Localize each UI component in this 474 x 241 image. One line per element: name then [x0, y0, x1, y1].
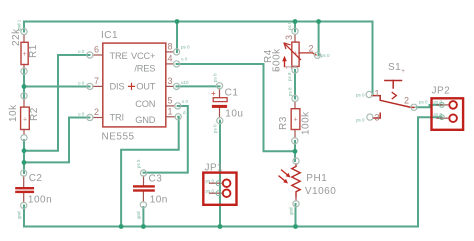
junction node B upper	[22, 148, 27, 153]
svg-text:ps 0: ps 0	[434, 100, 443, 105]
svg-text:u10: u10	[181, 80, 189, 85]
IC1 pin 8 VCC+	[166, 42, 190, 56]
svg-text:ps 0: ps 0	[356, 93, 365, 98]
svg-text:+: +	[293, 117, 297, 124]
wire S1 pin 2 to JP2 pin 1	[417, 105, 442, 107]
IC1 pin 4 /RES	[166, 54, 188, 68]
wire C2 bottom to GND rail	[23, 206, 25, 227]
svg-text:3: 3	[375, 113, 380, 123]
svg-text:100k: 100k	[301, 111, 312, 135]
wire node B: R2 bottom to C2 top	[23, 140, 25, 173]
svg-text:gnd: gnd	[17, 211, 22, 219]
wire VCC rail to IC pin 8	[176, 22, 178, 53]
junction GND rail / PH1	[293, 224, 298, 229]
wire rail drop to R1 top	[23, 22, 25, 32]
svg-text:10u: 10u	[225, 109, 243, 120]
IC1 pin 3 OUT	[166, 76, 189, 90]
junction VCC rail / pin 8	[175, 19, 180, 24]
wire bottom GND rail	[24, 226, 418, 228]
svg-text:/RES: /RES	[134, 63, 155, 73]
svg-text:JP1: JP1	[205, 163, 224, 174]
capacitor C2	[15, 170, 52, 219]
resistor R2	[8, 93, 40, 141]
svg-text:ps 0: ps 0	[206, 179, 215, 184]
svg-text:ps 0: ps 0	[321, 53, 330, 58]
svg-text:ps 0: ps 0	[434, 112, 443, 117]
svg-text:ps 8: ps 8	[288, 87, 293, 96]
svg-text:4: 4	[168, 54, 173, 64]
svg-text:+: +	[211, 89, 216, 98]
junction GND rail / IC gnd	[119, 224, 124, 229]
svg-text:TRI: TRI	[110, 113, 124, 123]
junction GND rail / JP1	[218, 224, 223, 229]
svg-text:u 0: u 0	[78, 81, 85, 86]
svg-text:V1060: V1060	[305, 186, 336, 197]
svg-text:gnd 1: gnd 1	[17, 19, 22, 31]
svg-text:IC1: IC1	[101, 30, 118, 41]
resistor R3 100k	[278, 87, 312, 144]
svg-text:ps 0: ps 0	[213, 124, 218, 133]
connector JP2	[419, 86, 463, 130]
svg-text:d 0: d 0	[183, 110, 190, 115]
svg-text:ps 0: ps 0	[206, 189, 215, 194]
svg-text:R1: R1	[28, 44, 39, 58]
svg-text:ps 0: ps 0	[356, 118, 365, 123]
svg-text:10k: 10k	[8, 104, 19, 122]
svg-text:C2: C2	[29, 173, 43, 184]
connector JP1	[203, 163, 236, 205]
svg-text:gnd: gnd	[136, 211, 141, 219]
svg-text:+: +	[23, 117, 27, 124]
svg-text:S1: S1	[388, 62, 401, 73]
wire OUT pin 3 to C1 top	[177, 85, 220, 87]
wire /RES pin 4 to R3-PH1 node	[177, 64, 295, 151]
svg-text:CON: CON	[135, 99, 155, 109]
svg-text:NE555: NE555	[102, 132, 135, 143]
svg-text:100n: 100n	[28, 195, 52, 206]
junction R3 / PH1 / RES node	[293, 149, 298, 154]
switch S1	[356, 62, 417, 123]
wire TRI pin 2 to node B	[24, 118, 90, 163]
potentiometer R4 500k	[263, 21, 330, 81]
svg-text:+: +	[275, 68, 279, 75]
junction VCC rail / R4 wiper	[316, 19, 321, 24]
svg-text:C1: C1	[225, 88, 239, 99]
svg-text:1: 1	[284, 64, 294, 69]
junction VCC rail / R4 pin 3	[293, 19, 298, 24]
capacitor C1 polarized	[211, 73, 243, 133]
photoresistor PH1 V1060	[279, 158, 336, 215]
svg-text:gnd: gnd	[289, 207, 294, 215]
wire R3 bottom to PH1 top	[294, 141, 296, 161]
svg-text:ps 0: ps 0	[287, 21, 292, 30]
wire PH1 bottom to GND rail	[295, 204, 297, 227]
junction node B lower	[22, 160, 27, 165]
svg-text:8: 8	[168, 42, 173, 52]
wire node A to DIS pin 7	[24, 86, 90, 88]
svg-text:u 0: u 0	[181, 57, 188, 62]
wire CON pin 5 to C3 top	[144, 106, 188, 173]
svg-text:1: 1	[375, 89, 380, 99]
op-amp U1 / timer IC1 NE555 body	[101, 30, 166, 143]
svg-text:10n: 10n	[150, 195, 168, 206]
wire VCC rail to R4 pin 3	[294, 22, 296, 32]
svg-text:GND: GND	[135, 115, 156, 125]
wire TRE pin 6 to node B	[24, 55, 90, 151]
IC1 pin 2 TRI	[78, 107, 103, 121]
svg-text:+: +	[23, 51, 27, 58]
svg-text:R3: R3	[278, 116, 289, 130]
svg-text:ps 0: ps 0	[419, 100, 428, 105]
svg-text:PH1: PH1	[306, 173, 327, 184]
wire rail drop to S1 pin 1	[372, 22, 374, 95]
wire VCC rail to R4 wiper pin 2	[318, 22, 320, 56]
junction GND rail / C3	[141, 224, 146, 229]
svg-text:u 0: u 0	[78, 112, 85, 117]
IC1 pin 6 TRE	[78, 45, 103, 59]
svg-text:2: 2	[404, 96, 409, 106]
wire GND pin 1 to GND rail	[121, 117, 179, 227]
svg-text:s 0: s 0	[182, 99, 189, 104]
capacitor C3	[133, 159, 168, 219]
svg-text:2: 2	[94, 107, 99, 117]
wire node A: R1 bottom to R2 top	[23, 69, 25, 99]
wire C3 bottom to GND rail	[142, 207, 144, 227]
wire C1 bottom through JP1 pin 1 to GND rail	[219, 121, 221, 227]
svg-text:ps 8: ps 8	[287, 72, 292, 81]
junction node A	[22, 84, 27, 89]
IC1 pin 1 GND	[166, 107, 190, 120]
svg-text:VCC+: VCC+	[131, 51, 155, 61]
svg-text:+: +	[401, 68, 405, 75]
svg-text:u 0: u 0	[78, 49, 85, 54]
svg-text:7: 7	[94, 76, 99, 86]
resistor R1	[11, 19, 39, 74]
wire top VCC rail	[24, 21, 373, 23]
svg-text:ps 0: ps 0	[213, 73, 218, 82]
svg-text:JP2: JP2	[432, 86, 451, 97]
svg-text:ps 0: ps 0	[181, 45, 190, 50]
svg-text:C3: C3	[149, 174, 163, 185]
IC1 pin 7 DIS	[78, 76, 103, 90]
svg-text:3: 3	[168, 76, 173, 86]
svg-text:3: 3	[284, 35, 294, 40]
svg-text:R2: R2	[29, 107, 40, 121]
svg-text:ps 5: ps 5	[136, 159, 141, 168]
wire GND rail up to JP2 pin 2	[418, 117, 442, 226]
svg-text:OUT: OUT	[136, 81, 156, 91]
wire R4 pin 1 to R3 top	[294, 70, 296, 99]
svg-text:1: 1	[168, 107, 173, 117]
svg-text:2: 2	[309, 44, 314, 54]
svg-text:5: 5	[168, 96, 173, 106]
svg-text:DIS: DIS	[110, 81, 125, 91]
svg-text:TRE: TRE	[110, 51, 128, 61]
svg-text:6: 6	[94, 45, 99, 55]
IC1 pin 5 CON	[166, 96, 189, 110]
